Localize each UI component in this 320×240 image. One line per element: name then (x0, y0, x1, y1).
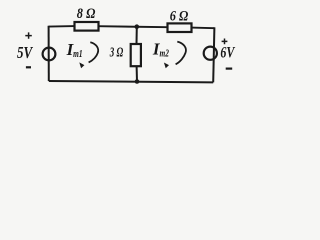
mesh current Im2 arc arrow (176, 42, 186, 65)
voltage source V1 plus sign (25, 32, 32, 38)
svg-text:m1: m1 (73, 49, 82, 60)
svg-text:6V: 6V (220, 45, 235, 62)
voltage source V1 minus sign (26, 66, 31, 68)
wire: middle vertical lower (136, 66, 138, 82)
voltage source V2 minus sign (226, 67, 233, 69)
mesh current Im2 arrowhead (164, 63, 169, 69)
junction: bottom middle node (135, 79, 140, 84)
wire: bottom (49, 81, 213, 82)
resistor R2 6-ohm box (168, 23, 192, 32)
svg-text:6 Ω: 6 Ω (170, 8, 189, 24)
resistor R1 8-ohm box (75, 22, 99, 31)
wire: middle vertical upper (136, 27, 138, 44)
svg-text:m2: m2 (160, 48, 170, 59)
svg-text:8 Ω: 8 Ω (77, 6, 96, 22)
wire: top-left segment (49, 25, 75, 28)
wire: top-middle segment (98, 26, 168, 27)
svg-text:5V: 5V (17, 43, 34, 62)
mesh current Im1 arc arrow (89, 42, 99, 62)
resistor R3 3-ohm box (131, 44, 141, 66)
voltage source V1 circle (43, 48, 56, 61)
mesh current Im1 arrowhead (79, 62, 84, 68)
junction: top middle node (135, 24, 140, 29)
wire: top-right segment (191, 27, 214, 30)
wire: right vertical (213, 27, 214, 82)
voltage source V2 circle (204, 47, 217, 60)
wire: left vertical (48, 26, 50, 81)
voltage source V2 plus sign (222, 39, 228, 45)
svg-text:3 Ω: 3 Ω (109, 46, 123, 61)
